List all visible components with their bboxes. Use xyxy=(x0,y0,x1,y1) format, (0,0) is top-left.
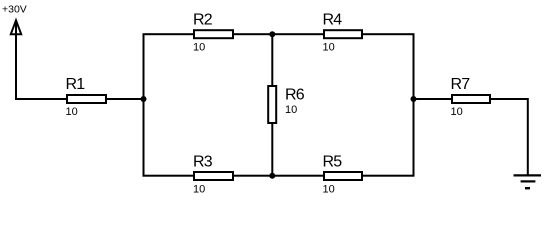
svg-text:R1: R1 xyxy=(66,76,86,93)
wire from R1 right terminal to node A xyxy=(105,98,143,100)
resistor R6 body (vertical) xyxy=(268,86,276,123)
resistor R1 body xyxy=(67,95,106,103)
node A junction dot xyxy=(141,96,147,102)
svg-text:10: 10 xyxy=(323,41,335,53)
svg-text:R3: R3 xyxy=(193,153,213,170)
svg-text:10: 10 xyxy=(323,183,335,195)
power +30V arrow symbol xyxy=(11,20,21,34)
svg-text:10: 10 xyxy=(66,106,78,118)
node B junction dot xyxy=(411,96,417,102)
node bottom junction dot xyxy=(269,173,275,179)
svg-text:10: 10 xyxy=(193,183,205,195)
svg-text:10: 10 xyxy=(451,106,463,118)
resistor R4 body xyxy=(324,30,362,38)
svg-text:R7: R7 xyxy=(451,76,471,93)
svg-text:10: 10 xyxy=(193,41,205,53)
resistor R7 body xyxy=(452,95,490,103)
resistor R3 body xyxy=(194,172,233,180)
wire from node B right to R7 and down to ground xyxy=(414,99,528,176)
wire left rail / top rail / right rail / bottom rail loop xyxy=(144,34,414,176)
resistor R2 body xyxy=(194,30,233,38)
svg-text:R4: R4 xyxy=(323,11,343,28)
svg-text:R2: R2 xyxy=(193,11,213,28)
svg-text:10: 10 xyxy=(285,104,297,116)
ground symbol xyxy=(514,175,542,188)
svg-text:R6: R6 xyxy=(285,86,305,103)
wire from +30V supply down and right to R1 left terminal xyxy=(16,21,67,99)
node top junction dot xyxy=(269,31,275,37)
svg-text:R5: R5 xyxy=(323,153,343,170)
wire middle branch through R6 xyxy=(271,34,273,176)
resistor R5 body xyxy=(324,172,362,180)
svg-text:+30V: +30V xyxy=(2,4,27,16)
